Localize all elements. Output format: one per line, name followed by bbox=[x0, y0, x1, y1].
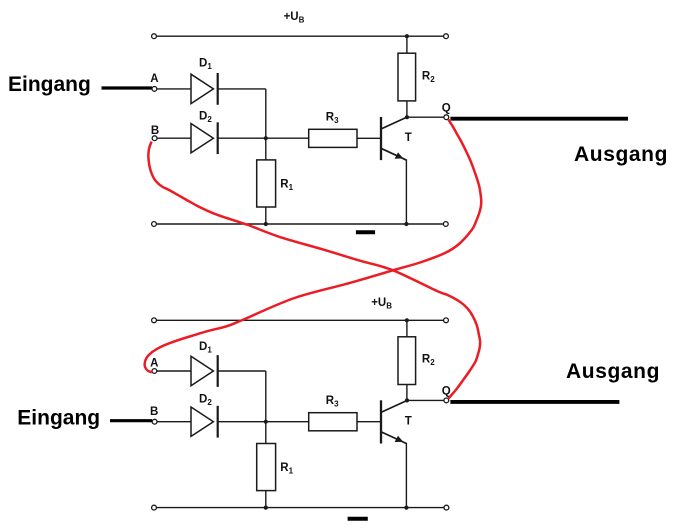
wire D1 cathode to corner (gate2) bbox=[218, 370, 266, 372]
svg-text:R2: R2 bbox=[422, 354, 435, 368]
resistor R3 bbox=[309, 129, 357, 147]
input lead B thick (gate2) bbox=[110, 419, 152, 422]
svg-text:Eingang: Eingang bbox=[8, 73, 91, 96]
svg-text:R1: R1 bbox=[280, 179, 293, 193]
collector junction (gate2) bbox=[405, 398, 409, 402]
wire corner down to node K1 bbox=[265, 89, 267, 138]
wire R1 to ground rail (gate2) bbox=[265, 491, 267, 508]
wire D2 cathode to node K2 bbox=[218, 421, 309, 423]
wire R3 to base bbox=[357, 137, 380, 139]
ground symbol (gate2) bbox=[348, 517, 368, 521]
junction emitter-ground (gate2) bbox=[404, 506, 408, 510]
svg-text:R2: R2 bbox=[422, 71, 435, 85]
node B (gate2) bbox=[152, 419, 157, 424]
junction R1-ground (gate2) bbox=[264, 506, 268, 510]
wire D2 cathode to node K1 bbox=[218, 137, 309, 139]
svg-text:D2: D2 bbox=[199, 111, 212, 125]
resistor R3 (gate2) bbox=[309, 413, 357, 431]
resistor R1 (gate2) bbox=[257, 444, 276, 491]
svg-text:R3: R3 bbox=[326, 112, 339, 126]
junction node K2 bbox=[264, 420, 268, 424]
wire B to D2 bbox=[157, 137, 191, 139]
+UB supply rail (bottom gate) bbox=[152, 318, 449, 323]
svg-text:Ausgang: Ausgang bbox=[566, 360, 660, 383]
red feedback wire Q2 to B1 bbox=[148, 142, 480, 399]
svg-text:Eingang: Eingang bbox=[17, 407, 100, 430]
svg-text:D1: D1 bbox=[199, 341, 212, 355]
svg-text:B: B bbox=[150, 406, 158, 418]
node B (gate1) bbox=[152, 136, 157, 141]
svg-text:Q: Q bbox=[442, 102, 451, 114]
wire collector node to Q bbox=[407, 116, 444, 118]
transistor T (gate1) bbox=[381, 117, 407, 224]
svg-text:D1: D1 bbox=[199, 57, 212, 71]
output lead thick (gate2) bbox=[450, 400, 619, 404]
wire R2 to collector node bbox=[406, 101, 408, 117]
junction node K1 bbox=[264, 136, 268, 140]
wire K2 down to R1 (gate2) bbox=[265, 422, 267, 444]
diode D1 bbox=[191, 73, 218, 105]
ground rail (gate2) bbox=[152, 505, 449, 510]
wire collector node to Q (gate2) bbox=[407, 399, 444, 401]
svg-text:+UB: +UB bbox=[371, 297, 392, 311]
ground rail (gate1) bbox=[152, 222, 449, 227]
svg-text:R3: R3 bbox=[326, 395, 339, 409]
wire rail to R2 (gate2) bbox=[406, 320, 408, 337]
svg-text:T: T bbox=[405, 416, 412, 428]
ground symbol (gate1) bbox=[356, 230, 375, 234]
junction emitter-ground bbox=[404, 222, 408, 226]
node Q (gate2) bbox=[444, 398, 449, 403]
wire D1 cathode to corner bbox=[218, 88, 266, 90]
node A (gate1) bbox=[152, 87, 157, 92]
svg-text:R1: R1 bbox=[280, 462, 293, 476]
wire corner down to node K2 bbox=[265, 371, 267, 422]
svg-text:D2: D2 bbox=[199, 394, 212, 408]
input lead A (thick) bbox=[102, 86, 153, 89]
diode D2 bbox=[191, 122, 218, 154]
diode D1 (gate2) bbox=[191, 355, 218, 387]
collector junction bbox=[405, 115, 409, 119]
svg-text:+UB: +UB bbox=[284, 11, 305, 25]
svg-text:A: A bbox=[150, 357, 158, 369]
transistor T (gate2) bbox=[381, 400, 407, 507]
svg-text:T: T bbox=[405, 132, 412, 144]
junction R1-ground bbox=[264, 222, 268, 226]
resistor R2 (gate2) bbox=[398, 337, 416, 385]
junction on +UB rail (gate2) bbox=[405, 318, 409, 322]
wire R1 to ground rail bbox=[265, 207, 267, 224]
junction on +UB rail bbox=[405, 34, 409, 38]
red feedback wire Q1 to A2 bbox=[145, 120, 482, 373]
svg-text:B: B bbox=[151, 125, 159, 137]
wire R2 to collector node (gate2) bbox=[406, 385, 408, 401]
wire A to D1 (gate2) bbox=[157, 370, 191, 372]
node Q (gate1) bbox=[444, 115, 449, 120]
resistor R1 bbox=[257, 160, 276, 207]
wire A to D1 bbox=[157, 88, 191, 90]
svg-text:Ausgang: Ausgang bbox=[574, 143, 668, 166]
wire B to D2 (gate2) bbox=[157, 421, 191, 423]
wire K1 down to R1 bbox=[265, 138, 267, 160]
+UB supply rail (top) bbox=[152, 34, 449, 39]
resistor R2 bbox=[398, 53, 416, 101]
diode D2 (gate2) bbox=[191, 406, 218, 438]
node A (gate2) bbox=[152, 369, 157, 374]
wire rail to R2 bbox=[406, 36, 408, 53]
svg-text:A: A bbox=[150, 73, 158, 85]
output lead (thick) bbox=[450, 117, 628, 121]
wire R3 to base (gate2) bbox=[357, 421, 380, 423]
